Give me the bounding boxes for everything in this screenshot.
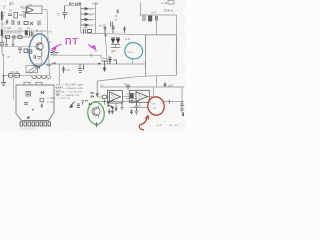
- op-amp U1 triangle: [27, 7, 33, 13]
- wire base left: [5, 46, 36, 48]
- cluster caps below op-amp: [12, 20, 40, 26]
- interior star mark: [41, 91, 45, 94]
- tick on wire y55: [90, 54, 92, 57]
- wire x47 vertical long: [47, 10, 50, 76]
- tick on wire: [168, 100, 170, 104]
- wire U3 box down: [139, 102, 141, 107]
- wire x182 y87 to y101.5: [181, 87, 183, 102]
- wire collector up: [41, 31, 43, 42]
- op-amp U3 triangle: [136, 92, 148, 102]
- corner marks top-left: [3, 6, 6, 8]
- interior square with lines: [26, 92, 31, 97]
- drops below y37 with caps: [5, 37, 14, 46]
- wire x105 down: [105, 33, 108, 64]
- wire x122 with marks: [121, 102, 124, 110]
- small cap above т5: [116, 10, 119, 14]
- comparator U2 triangle: [110, 92, 121, 102]
- branch arrow 3: [81, 18, 89, 20]
- cap at x109: [108, 60, 111, 65]
- capacitor pair x110: [111, 22, 113, 27]
- wire diodes join: [111, 45, 121, 48]
- wire x97.2 down with arrow: [96, 81, 98, 97]
- dark marks кн: [91, 91, 95, 99]
- scan noise overlay: [0, 0, 1, 1]
- transistor VT7 inside green circle: [92, 106, 100, 118]
- connector humps on wire: [32, 76, 51, 79]
- text labels below op-amp: [4, 26, 30, 31]
- wire under teal blob: [132, 60, 134, 65]
- branch arrow 1: [81, 8, 89, 10]
- branch rungs to right rail: [89, 9, 96, 25]
- component above y87: [126, 85, 130, 90]
- capacitor near x63: [62, 66, 65, 73]
- wire output comparator: [123, 96, 133, 104]
- interior small rect: [40, 99, 44, 102]
- dark blob on left bus: [1, 30, 3, 37]
- op-amp U3 box lower right: [129, 90, 149, 102]
- comparator U2 box: [108, 91, 123, 104]
- wire sloped from box bottom-left going left: [97, 75, 176, 81]
- wire top horizontal y87 right part: [100, 86, 184, 88]
- dark labels left of green circle: [85, 99, 92, 106]
- resistor R8 on y37: [18, 36, 22, 39]
- wire top-right horizontal: [139, 14, 176, 16]
- resistor R15: [9, 74, 13, 78]
- wire box to y87: [156, 75, 158, 87]
- connector box top tabs: [24, 82, 42, 85]
- transistor VT3 inside blue ellipse: [36, 42, 43, 57]
- wire junction x3.5 vertical: [3, 54, 5, 76]
- interior dot: [32, 109, 34, 111]
- component dark on y37: [25, 30, 28, 35]
- faint text above y37: [5, 31, 22, 35]
- cluster x96-107 T arrow: [98, 61, 108, 71]
- text block 4 lines: [56, 83, 84, 98]
- capacitor C1 on left bus: [1, 16, 4, 21]
- capacitor C14: [123, 27, 126, 34]
- wire input comparator: [98, 96, 110, 98]
- cluster below ПТ: [50, 51, 59, 54]
- capacitor C11 on y33: [104, 27, 107, 34]
- annotation magenta arrow right: [88, 44, 96, 49]
- wire right rail x95.5: [95, 3, 97, 34]
- faint marks inside red circle: [152, 102, 156, 110]
- top-left text label cluster: [9, 2, 24, 10]
- big connector box outline: [16, 85, 54, 121]
- wire right of red circle: [164, 101, 184, 103]
- capacitor on output: [131, 101, 134, 103]
- text 4н7 above wire: [47, 61, 56, 67]
- cluster end y37: [30, 32, 34, 37]
- cluster on y33 left: [84, 29, 92, 33]
- wire x59.3 down from y64: [58, 64, 60, 85]
- wires op-amp U3 inputs: [126, 94, 136, 99]
- marks ≡ at x77: [77, 104, 80, 107]
- dark mark right edge: [182, 113, 184, 117]
- annotation blue ellipse: [28, 33, 50, 67]
- op-amp U1 box: [26, 6, 42, 14]
- wire U3 output: [148, 96, 153, 98]
- components under top-right wire: [143, 16, 157, 22]
- annotation green circle: [87, 101, 106, 125]
- node A taps on bus: [2, 13, 7, 37]
- wire op-amp inputs: [22, 8, 29, 12]
- diode VD2: [116, 38, 120, 44]
- wire top feed: [65, 5, 81, 7]
- arrow below VT8: [108, 109, 114, 114]
- wire y75.7: [4, 75, 51, 77]
- wire x2 lower: [2, 37, 4, 56]
- wire into transistor: [104, 98, 106, 105]
- wire x182 down with cap and ground: [180, 102, 184, 113]
- interior bottom mark: [27, 117, 30, 119]
- op-amp U3 hatch: [138, 94, 142, 100]
- wire y55 from cluster: [50, 55, 107, 58]
- branch texts: [90, 8, 93, 27]
- wire left vertical bus: [1, 11, 3, 52]
- interior vertical element: [41, 104, 43, 108]
- annotation teal circle: [125, 43, 143, 59]
- resistor R16: [15, 74, 20, 78]
- mid-left wire y37: [2, 36, 34, 38]
- faint text bottom right: [156, 123, 178, 127]
- input pin rect: [103, 95, 107, 98]
- dark pin block in U3: [130, 93, 134, 98]
- junction mark x106: [104, 34, 107, 37]
- resistor R1 on left bus: [1, 42, 4, 46]
- big empty box right: [146, 35, 177, 76]
- capacitor top right near y87: [164, 83, 167, 88]
- resistor R5 left: [6, 20, 8, 25]
- text right of connector box: [56, 85, 64, 96]
- resistor R7 on y37: [5, 36, 9, 39]
- wire top-right verticals: [141, 2, 177, 35]
- cluster x77-85 below y64: [78, 64, 84, 73]
- wire stub left of connector box: [13, 78, 15, 100]
- wire y107.5 lower left of red circle: [130, 107, 148, 109]
- text top-right: [152, 9, 174, 15]
- small box very top-right: [168, 1, 174, 5]
- connector pins row: [20, 122, 50, 126]
- capacitor C13 on y37: [13, 35, 15, 40]
- diode VD1: [111, 38, 115, 44]
- interior left marks: [24, 103, 28, 105]
- small marks left of green circle: [82, 101, 85, 106]
- wire emitter down: [41, 56, 43, 64]
- scanned paper background: [0, 0, 185, 131]
- component marks at x131: [130, 110, 133, 115]
- dark arrow symbol x70-75: [70, 102, 75, 108]
- annotation red curvy arrow: [139, 116, 148, 130]
- comparator hatch: [111, 94, 115, 100]
- base components left of transistor: [34, 55, 41, 59]
- wire mid feed y33: [81, 33, 146, 35]
- text R3: [9, 9, 12, 13]
- capacitor C9: [62, 6, 68, 19]
- text very top-right: [161, 1, 168, 5]
- wire x136.5 with cap: [135, 102, 139, 115]
- wire power bus vertical: [80, 6, 82, 33]
- transistor VT8 right of green circle: [108, 101, 113, 109]
- cluster resistors/caps top-left: [8, 12, 26, 18]
- wire y101.5 horizontal above green circle: [93, 101, 139, 103]
- cluster x107-115 above y64: [109, 56, 117, 64]
- wire mid horizontal y64: [35, 63, 146, 65]
- wire x153.3 from y87 down: [152, 87, 154, 97]
- text top right small: [115, 14, 118, 22]
- annotation red circle: [146, 96, 165, 117]
- arrow below comparator: [115, 104, 117, 112]
- annotation magenta arrow left: [51, 44, 62, 52]
- branch arrow 4: [81, 24, 89, 26]
- cluster mid-left lower: [18, 48, 32, 54]
- wire y31 long horizontal: [2, 30, 47, 32]
- trimmer box with arrows: [26, 65, 40, 74]
- ground symbol left: [1, 76, 6, 86]
- junction tick on y31: [36, 30, 38, 33]
- branch arrow 2: [81, 13, 89, 15]
- arrow below green circle: [95, 122, 97, 127]
- wire op-amp output: [42, 9, 47, 11]
- junction dot: [3, 75, 5, 77]
- capacitor C12 on y33: [112, 26, 115, 34]
